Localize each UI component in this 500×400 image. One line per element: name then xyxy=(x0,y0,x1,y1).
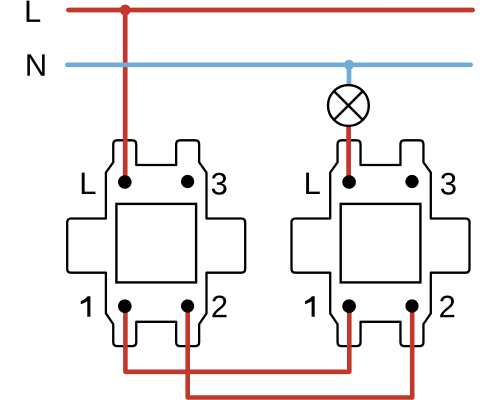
lamp E1 xyxy=(328,85,369,126)
label SW2 pin 3 xyxy=(441,173,456,195)
node L junction xyxy=(120,5,131,16)
label N (neutral) xyxy=(27,54,44,75)
switch SW2 terminal 3 xyxy=(405,175,418,188)
switch SW2 terminal 2 xyxy=(405,299,418,312)
label L (line) xyxy=(27,1,41,22)
wire N to lamp xyxy=(347,65,352,86)
net N (neutral wire) xyxy=(67,62,470,67)
label SW2 pin L xyxy=(306,173,320,194)
label SW1 pin 3 xyxy=(212,173,227,195)
wire SW1-1 to SW2-1 xyxy=(125,306,349,372)
switch SW1 body xyxy=(67,140,245,346)
label SW1 pin 2 xyxy=(212,296,226,318)
wire L to SW1 terminal L xyxy=(123,10,128,180)
switch SW2 body xyxy=(292,140,470,346)
wire lamp to SW2 terminal L xyxy=(346,126,351,180)
node N junction xyxy=(344,60,354,70)
label SW2 pin 2 xyxy=(440,296,454,318)
switch SW1 terminal 3 xyxy=(181,175,194,188)
switch SW2 terminal L xyxy=(342,175,356,189)
switch SW1 terminal L xyxy=(118,175,132,189)
switch SW2 terminal 1 xyxy=(342,299,356,313)
net L (line wire) xyxy=(68,8,472,13)
label SW1 pin L xyxy=(82,173,96,194)
switch SW1 terminal 2 xyxy=(181,299,194,312)
label SW2 pin 1 xyxy=(305,296,315,316)
switch SW2 rocker xyxy=(341,204,421,283)
wire SW1-2 to SW2-2 xyxy=(188,306,413,398)
label SW1 pin 1 xyxy=(81,296,91,316)
switch SW1 rocker xyxy=(116,204,196,283)
switch SW1 terminal 1 xyxy=(118,299,132,313)
